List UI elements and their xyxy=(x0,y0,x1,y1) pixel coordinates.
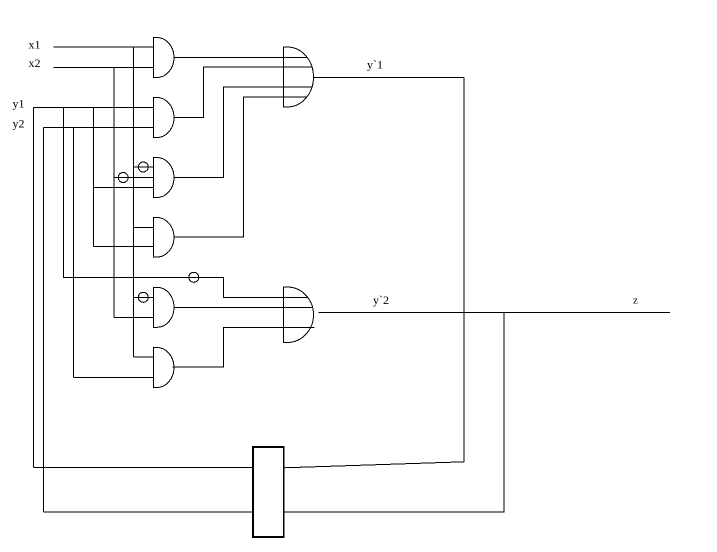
or-gate U2 (y'2) xyxy=(284,287,314,343)
wire y'2 feedback (junction on z wire) xyxy=(284,312,504,512)
wire gate G5 output to OR2 xyxy=(174,306,313,308)
wire y2 feedback riser (left) xyxy=(43,128,45,513)
and-gate G2 xyxy=(154,98,175,138)
svg-text:y`2: y`2 xyxy=(373,293,389,307)
node x1 label xyxy=(29,38,41,52)
wire x1 vertical bus xyxy=(133,47,135,357)
wire gate G4 input 1 (from x1 bus) xyxy=(134,227,154,229)
svg-text:y2: y2 xyxy=(13,117,25,131)
wire gate G3 input 1 (from x1 bus) xyxy=(134,166,154,168)
and-gate G5 xyxy=(154,287,175,327)
wire OR2 output z xyxy=(318,311,670,313)
wire y1 feedback riser (left) xyxy=(32,107,34,467)
node y1 label xyxy=(13,97,25,111)
wire y2 input to gate G2 xyxy=(44,127,154,129)
wire gate G2 output to OR1 xyxy=(174,67,312,117)
wire y1 branch vertical to gates G3,G4 xyxy=(93,107,95,246)
wire gate G4 input 2 xyxy=(94,246,154,248)
wire y'1 feedback vertical xyxy=(463,77,465,462)
wire x1 input to gate G1 xyxy=(53,46,153,48)
wire gate G1 output to OR1 xyxy=(174,56,307,58)
node z label xyxy=(633,295,638,307)
and-gate G1 xyxy=(154,38,175,78)
wire y1 input to gate G2 xyxy=(33,106,153,108)
wire gate G6 input 1 (from x1 bus) xyxy=(134,356,154,358)
inverter bubble on G5 input 1 xyxy=(138,292,148,302)
wire x2 input to gate G1 xyxy=(53,67,153,69)
wire y1 branch to OR2 input 1 (with jog) xyxy=(64,107,308,297)
wire gate G5 input 2 (from x2 bus) xyxy=(114,317,154,319)
wire y'1 sloped segment into delay box xyxy=(284,462,464,468)
wire gate G3 input 2 (from x2 bus) xyxy=(114,177,154,179)
delay element box xyxy=(253,447,284,537)
wire gate G6 input 2 xyxy=(73,376,153,378)
node x2 label xyxy=(29,56,41,70)
svg-text:x1: x1 xyxy=(29,38,41,52)
node y'2 label xyxy=(373,293,389,307)
and-gate G4 xyxy=(154,218,175,258)
wire y2 branch vertical to gate G6 xyxy=(72,128,74,378)
wire gate G4 output to OR1 xyxy=(174,97,307,237)
inverter bubble on OR2 input 1 wire xyxy=(189,272,199,282)
and-gate G3 xyxy=(154,158,175,198)
inverter bubble on G3 input 1 xyxy=(138,162,148,172)
wire OR1 output y'1 xyxy=(314,76,465,78)
wire delay box output top-left xyxy=(33,466,253,468)
inverter bubble on G3 input 2 xyxy=(118,173,128,183)
or-gate U1 (y'1) xyxy=(284,47,314,107)
wire delay box output bottom-left xyxy=(44,511,253,513)
wire gate G6 output to OR2 xyxy=(173,328,315,368)
svg-text:x2: x2 xyxy=(29,56,41,70)
node y2 label xyxy=(13,117,25,131)
wire gate G5 input 1 (from x1 bus) xyxy=(134,296,154,298)
wire gate G3 output to OR1 xyxy=(174,87,312,177)
svg-text:y1: y1 xyxy=(13,97,25,111)
svg-text:y`1: y`1 xyxy=(367,58,383,72)
and-gate G6 xyxy=(154,348,175,388)
node y'1 label xyxy=(367,58,383,72)
wire gate G3 input 3 xyxy=(94,187,154,189)
wire x2 vertical bus xyxy=(113,68,115,318)
svg-text:z: z xyxy=(633,295,638,307)
